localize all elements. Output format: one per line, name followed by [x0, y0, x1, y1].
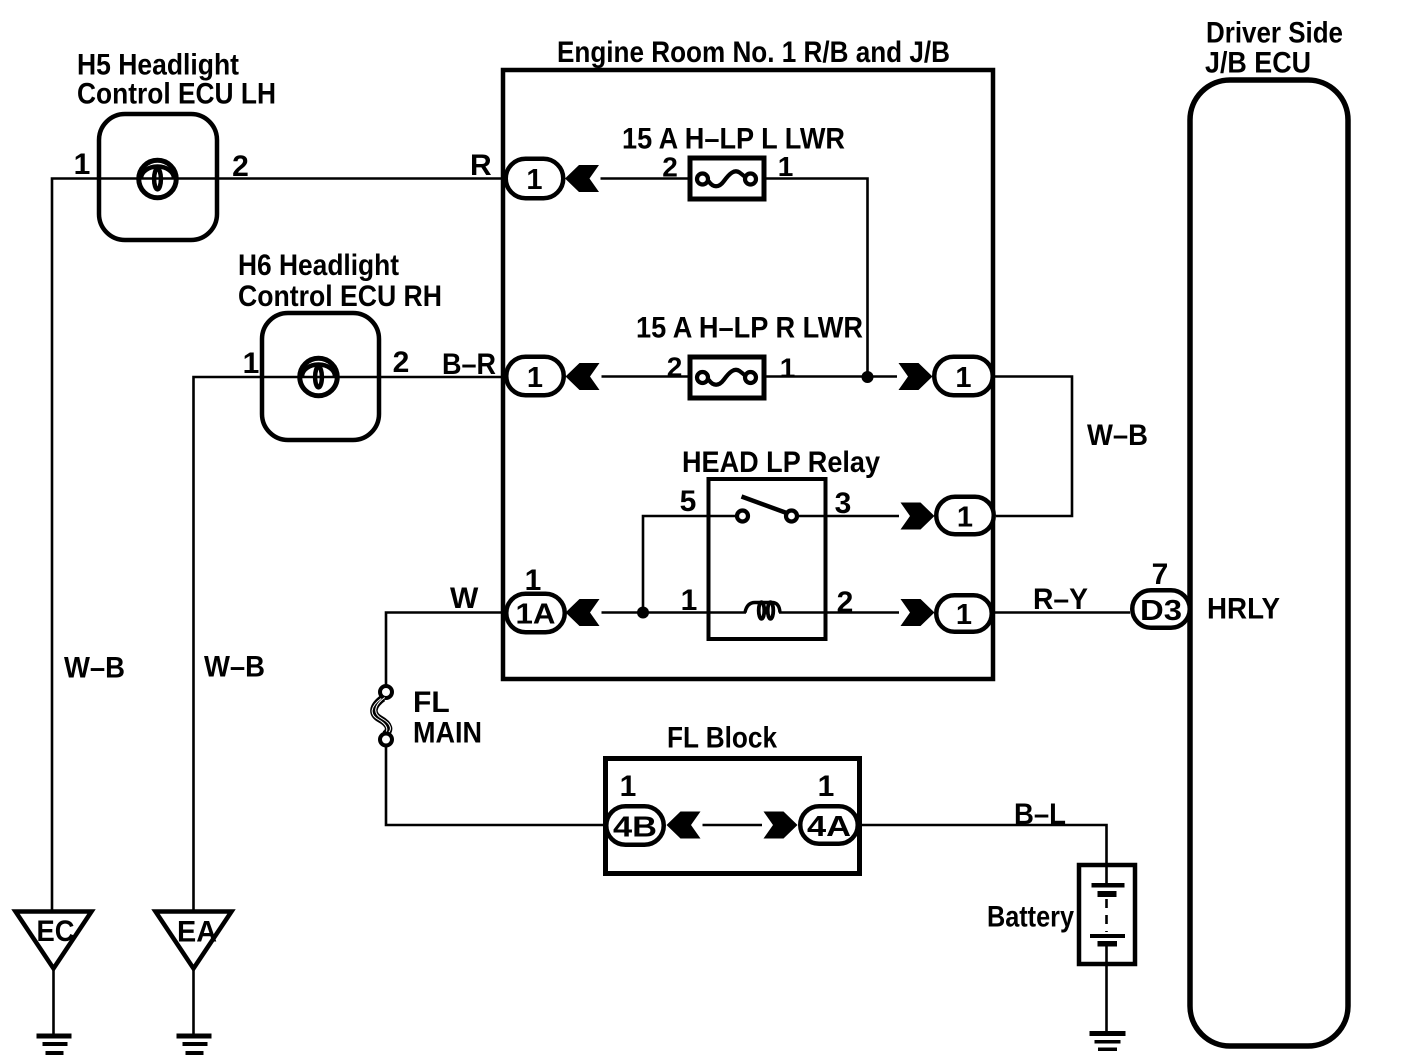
fuse F2 left terminal — [697, 372, 708, 383]
bulb H6 center loop — [315, 367, 322, 388]
wire battery negative lead down to ground — [1105, 946, 1108, 1031]
wire EC triangle tail — [52, 969, 55, 1034]
wire C6 to D3 connector R-Y — [994, 611, 1130, 614]
svg-text:1: 1 — [620, 770, 637, 803]
FL MAIN fusible link upper terminal — [380, 686, 392, 698]
ground EA bar 2 — [183, 1042, 208, 1046]
wire fuse F1 pin1 right then down to row2 junction — [765, 179, 868, 378]
svg-text:1: 1 — [955, 362, 971, 394]
svg-text:1: 1 — [780, 353, 796, 384]
FL Block box — [606, 759, 860, 874]
svg-text:W: W — [450, 582, 479, 615]
connector C2 oval pin 1 — [506, 357, 564, 396]
wire W-B link from C3 down to C4 — [995, 377, 1072, 517]
wire relay pin3 to arrow A4 — [798, 515, 899, 518]
junction node row2 — [862, 371, 874, 383]
Driver Side J/B ECU box — [1190, 80, 1348, 1046]
connector C4 oval pin 1 — [936, 497, 994, 535]
svg-text:W–B: W–B — [64, 652, 125, 685]
battery positive long plate — [1092, 883, 1125, 888]
ground EA bar 1 — [177, 1034, 212, 1039]
battery dashed center line — [1105, 899, 1108, 932]
svg-text:1: 1 — [956, 599, 972, 631]
svg-text:R: R — [470, 149, 492, 182]
connector C6 oval pin 1 — [936, 595, 992, 632]
Engine Room No.1 R/B and J/B box — [503, 70, 993, 679]
battery box — [1079, 865, 1135, 964]
svg-text:D3: D3 — [1140, 595, 1182, 627]
FL MAIN fusible link S white striation 1 — [376, 698, 391, 735]
svg-text:Driver Side: Driver Side — [1206, 17, 1343, 50]
svg-text:B–R: B–R — [442, 348, 496, 381]
arrow A5 into C5 — [566, 599, 600, 626]
wire EA triangle tail — [192, 969, 195, 1034]
arrow A3 into C3 — [899, 363, 933, 390]
svg-text:Battery: Battery — [987, 901, 1074, 934]
bulb H6 filament arc — [302, 365, 335, 377]
svg-text:W–B: W–B — [204, 651, 265, 684]
svg-text:Control ECU LH: Control ECU LH — [77, 78, 276, 111]
svg-text:H6 Headlight: H6 Headlight — [238, 249, 399, 282]
svg-text:H5 Headlight: H5 Headlight — [77, 49, 239, 82]
connector D3 oval — [1132, 590, 1190, 628]
svg-text:Engine Room No. 1 R/B and J/B: Engine Room No. 1 R/B and J/B — [557, 36, 950, 69]
arrow A8 into 4A — [764, 812, 798, 839]
bulb H5 filament arc — [141, 167, 174, 179]
svg-text:J/B ECU: J/B ECU — [1205, 47, 1311, 80]
relay switch lever — [742, 497, 789, 514]
svg-text:7: 7 — [1152, 558, 1169, 591]
battery short plate upper — [1098, 891, 1117, 897]
junction node relay pin1 row — [637, 607, 649, 619]
svg-text:2: 2 — [667, 352, 683, 383]
svg-text:1: 1 — [681, 584, 698, 617]
relay coil loop 2 — [768, 602, 774, 619]
svg-text:1: 1 — [525, 564, 542, 597]
wire H6 pin2 row to C2 and pin1 left vertical W-B run — [194, 377, 505, 911]
svg-text:2: 2 — [662, 152, 678, 183]
ground EC bar 1 — [37, 1034, 72, 1039]
wire H5 pin1 to engine box row1 and down-left vertical W-B run — [52, 179, 504, 912]
ground EC bar 3 — [46, 1051, 64, 1055]
svg-text:1: 1 — [243, 347, 260, 380]
svg-text:1: 1 — [778, 151, 794, 182]
svg-text:HEAD LP Relay: HEAD LP Relay — [682, 446, 880, 479]
fuse F2 element wave — [709, 370, 745, 385]
arrow A4 into C4 — [901, 503, 935, 530]
connector 4B oval — [606, 806, 664, 845]
ECU box H6 — [262, 313, 379, 440]
relay coil bump — [745, 603, 780, 613]
relay switch left contact — [737, 511, 748, 522]
ground EA triangle — [156, 912, 232, 969]
FL MAIN fusible link lower terminal — [380, 734, 392, 746]
battery lower long plate — [1090, 934, 1125, 938]
fuse F1 right terminal — [745, 174, 756, 185]
svg-text:15 A H–LP L LWR: 15 A H–LP L LWR — [622, 123, 845, 156]
wire between FL block arrows — [703, 824, 763, 827]
bulb H6 outer circle — [300, 358, 338, 396]
fuse F2 right terminal — [745, 372, 756, 383]
bulb H5 outer circle — [139, 160, 177, 198]
connector C3 oval pin 1 — [934, 357, 993, 396]
wire relay pin5 out left and down to coil row junction — [643, 516, 736, 613]
svg-text:3: 3 — [835, 487, 852, 520]
wire arrow A2 to fuse F2 — [602, 375, 691, 378]
fuse F1 element wave — [709, 171, 745, 186]
ECU box H5 — [99, 114, 217, 240]
svg-text:B–L: B–L — [1014, 798, 1066, 831]
fuse F2 body 15A H-LP R LWR — [690, 357, 764, 398]
wire relay coil pin2 to arrow A6 — [779, 611, 899, 614]
connector 4A oval — [800, 806, 858, 844]
svg-text:EA: EA — [177, 916, 217, 949]
svg-text:4A: 4A — [807, 811, 851, 843]
svg-text:1A: 1A — [516, 599, 556, 631]
svg-text:1: 1 — [957, 502, 973, 534]
arrow A6 into C6 — [901, 599, 935, 626]
svg-text:FL Block: FL Block — [667, 722, 777, 755]
svg-text:2: 2 — [232, 150, 249, 183]
svg-text:R–Y: R–Y — [1033, 583, 1088, 616]
svg-text:1: 1 — [527, 362, 543, 394]
svg-text:4B: 4B — [613, 812, 657, 844]
wire FL MAIN lower lead down and right to 4B — [386, 746, 606, 826]
wire fuse F2 pin1 to arrow A3 through junction — [766, 375, 898, 378]
svg-text:2: 2 — [837, 586, 854, 619]
fuse F1 left terminal — [697, 174, 708, 185]
arrow A2 into C2 — [566, 363, 600, 390]
ground battery bar 1 — [1090, 1031, 1126, 1036]
svg-text:MAIN: MAIN — [413, 717, 482, 750]
bulb H5 center loop — [154, 169, 161, 190]
svg-text:FL: FL — [413, 686, 450, 719]
ground battery bar 3 — [1098, 1048, 1117, 1052]
wire arrow A5 to relay pin1 — [602, 611, 747, 614]
ground battery bar 2 — [1095, 1040, 1121, 1044]
svg-text:5: 5 — [680, 485, 697, 518]
connector C5 oval pin 1A — [506, 594, 565, 633]
fuse F1 body 15A H-LP L LWR — [690, 158, 764, 199]
svg-text:Control ECU RH: Control ECU RH — [238, 280, 442, 313]
svg-text:W–B: W–B — [1087, 419, 1148, 452]
relay switch right contact — [786, 511, 797, 522]
wire arrow A1 to fuse F1 — [601, 177, 691, 180]
wire B-L from 4A right then down into battery — [860, 825, 1107, 883]
relay HEAD LP box — [709, 479, 826, 639]
svg-text:15 A H–LP R LWR: 15 A H–LP R LWR — [636, 311, 863, 344]
arrow A7 into 4B — [667, 812, 701, 839]
svg-text:EC: EC — [37, 915, 75, 948]
arrow A1 into C1 — [565, 165, 599, 192]
FL MAIN fusible link S white striation 2 — [372, 699, 387, 736]
relay coil loop 1 — [759, 602, 765, 619]
svg-text:1: 1 — [818, 770, 835, 803]
svg-text:1: 1 — [526, 164, 542, 196]
ground EA bar 3 — [186, 1051, 204, 1055]
FL MAIN fusible link S band — [374, 698, 389, 735]
ground EC triangle — [16, 912, 92, 969]
ground EC bar 2 — [43, 1042, 68, 1046]
connector C1 oval pin 1 — [506, 159, 564, 199]
svg-text:1: 1 — [74, 148, 91, 181]
wire W from C5 left then down to FL MAIN — [386, 613, 504, 687]
battery short plate lower — [1098, 941, 1118, 947]
svg-text:HRLY: HRLY — [1207, 593, 1280, 626]
svg-text:2: 2 — [393, 346, 410, 379]
